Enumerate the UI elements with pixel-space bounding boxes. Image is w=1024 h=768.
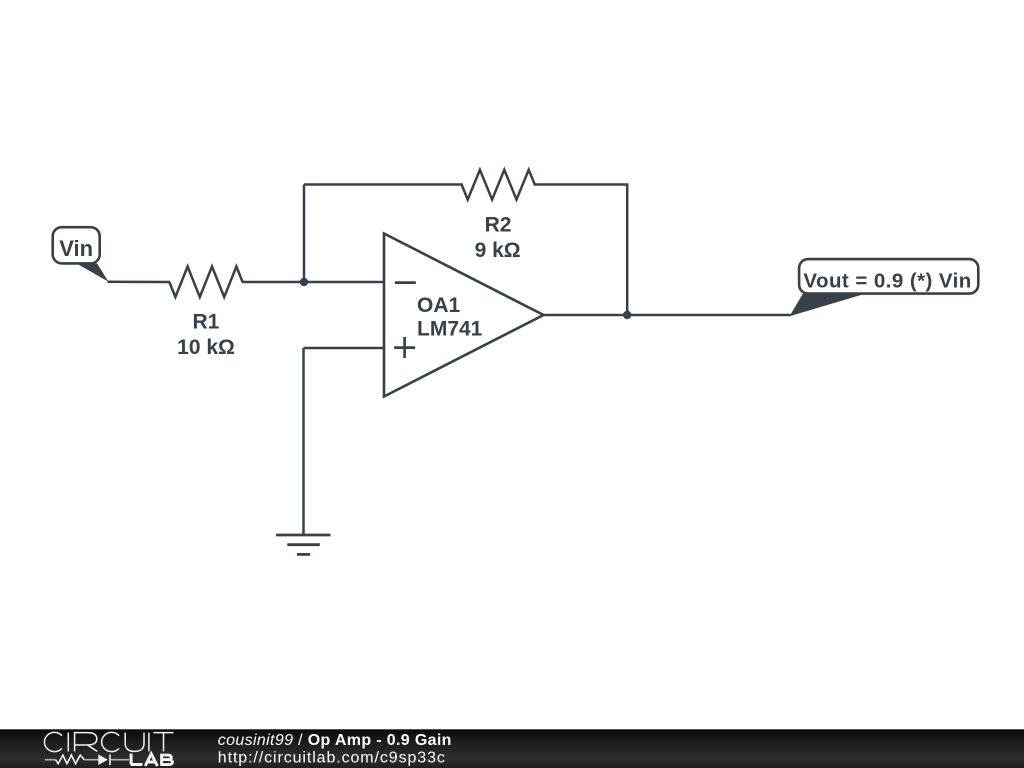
CircuitLab logo CIRCUIT xyxy=(44,732,173,751)
wire feedback top to R2 xyxy=(304,183,463,186)
svg-text:OA1: OA1 xyxy=(417,294,461,317)
svg-text:R2: R2 xyxy=(485,214,512,237)
svg-text:Vout = 0.9 (*) Vin: Vout = 0.9 (*) Vin xyxy=(803,270,971,293)
CircuitLab logo resistor-diode art xyxy=(45,759,129,761)
wire op-amp non-inverting input xyxy=(304,347,385,350)
svg-text:Vin: Vin xyxy=(59,236,93,261)
resistor R1 xyxy=(169,267,242,298)
node A junction dot xyxy=(300,278,308,286)
net label Vin xyxy=(53,227,109,282)
CircuitLab logo LAB xyxy=(131,754,173,766)
wire node A up to feedback xyxy=(303,185,306,283)
wire R1 to op-amp inverting input xyxy=(242,281,384,284)
op-amp OA1 plus input marker xyxy=(394,337,415,358)
svg-text:cousinit99 / Op Amp - 0.9 Gain: cousinit99 / Op Amp - 0.9 Gain xyxy=(218,732,452,749)
wire op-amp output to Vout xyxy=(544,314,791,317)
wire R2 to output node xyxy=(534,185,628,316)
svg-text:LM741: LM741 xyxy=(417,317,483,340)
ground xyxy=(276,535,331,554)
node Vout junction dot xyxy=(623,311,631,319)
resistor R2 xyxy=(462,170,535,200)
svg-text:http://circuitlab.com/c9sp33c: http://circuitlab.com/c9sp33c xyxy=(218,750,446,767)
svg-text:10 kΩ: 10 kΩ xyxy=(177,336,235,359)
net label Vout xyxy=(790,259,979,316)
wire Vin to R1 xyxy=(108,281,171,284)
op-amp OA1 body xyxy=(384,234,544,397)
op-amp OA1 minus input marker xyxy=(395,281,416,284)
footer bar xyxy=(0,729,1024,768)
wire to ground xyxy=(302,348,305,535)
svg-text:R1: R1 xyxy=(192,311,219,334)
svg-text:9 kΩ: 9 kΩ xyxy=(475,239,521,262)
